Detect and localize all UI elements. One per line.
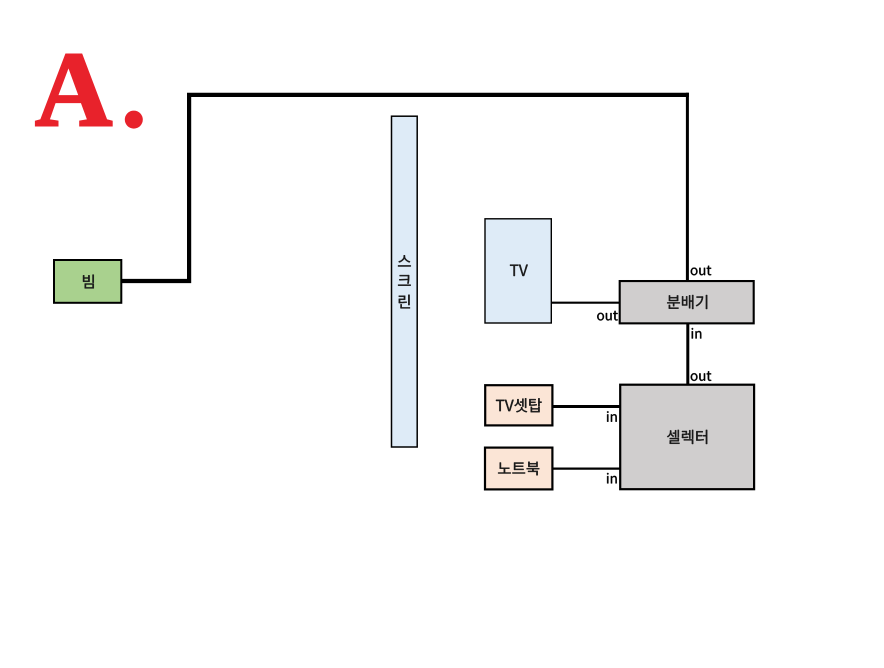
period dot (red) bbox=[125, 111, 143, 129]
box beam projector 빔 bbox=[54, 260, 121, 303]
port label in (selector bottom input) bbox=[607, 473, 617, 484]
box splitter 분배기 bbox=[620, 281, 754, 323]
label TV bbox=[510, 265, 528, 276]
port label in (below splitter) bbox=[692, 328, 702, 339]
label 셀렉터 bbox=[667, 430, 707, 444]
label screen char 크 bbox=[398, 275, 411, 286]
box laptop 노트북 bbox=[485, 448, 552, 490]
port label out (left of splitter) bbox=[597, 311, 618, 321]
port label out (above selector) bbox=[691, 371, 712, 381]
wire splitter top-in vertical bbox=[686, 93, 689, 281]
label screen char 스 bbox=[398, 255, 411, 266]
label TV셋탑 bbox=[496, 398, 542, 412]
wire TV-to-splitter bbox=[552, 302, 621, 304]
box selector 셀렉터 bbox=[620, 385, 754, 490]
port label out (above splitter) bbox=[691, 266, 712, 276]
wire splitter-to-selector bbox=[686, 324, 689, 386]
wire settop-to-selector bbox=[553, 405, 621, 408]
wire beam-to-splitter (thick) bbox=[122, 95, 689, 281]
port label in (selector top input) bbox=[607, 411, 617, 422]
label 빔 bbox=[83, 275, 94, 289]
letter A (red) bbox=[36, 55, 112, 126]
wire laptop-to-selector bbox=[553, 468, 622, 470]
label screen char 린 bbox=[399, 295, 410, 309]
label 분배기 bbox=[667, 295, 707, 309]
box screen 스크린 bbox=[392, 116, 418, 447]
label 노트북 bbox=[498, 462, 539, 476]
box TV bbox=[485, 219, 551, 323]
box set-top TV셋탑 bbox=[485, 385, 552, 425]
